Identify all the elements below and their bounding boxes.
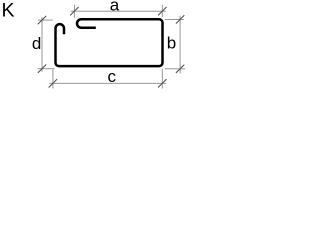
dimension a tick left [70, 7, 78, 15]
dimension c tick right [158, 79, 166, 87]
dimension a line [71, 10, 166, 12]
svg-text:b: b [167, 34, 176, 53]
dimension a extension line right [161, 5, 163, 18]
dimension d tick bottom [38, 65, 46, 73]
dimension c tick left [49, 79, 57, 87]
svg-text:d: d [32, 34, 41, 53]
svg-text:K: K [2, 0, 15, 22]
dimension c extension line right [161, 69, 163, 89]
dimension c extension line left [52, 69, 54, 88]
dimension a extension line left [73, 5, 75, 18]
profile outline (sheet-metal K profile) [56, 19, 163, 66]
dimension d line [41, 17, 43, 72]
dimension c line [49, 82, 166, 84]
dimension d extension line top [38, 19, 53, 21]
dimension d extension line bottom [38, 68, 55, 70]
dimension b extension line bottom [165, 68, 185, 70]
svg-text:a: a [110, 0, 120, 15]
dimension d tick top [38, 16, 46, 24]
dimension b line [179, 16, 181, 74]
svg-text:c: c [108, 67, 117, 86]
dimension b tick top [176, 15, 184, 23]
dimension b tick bottom [176, 65, 184, 73]
dimension b extension line top [165, 18, 184, 20]
dimension a tick right [158, 7, 166, 15]
